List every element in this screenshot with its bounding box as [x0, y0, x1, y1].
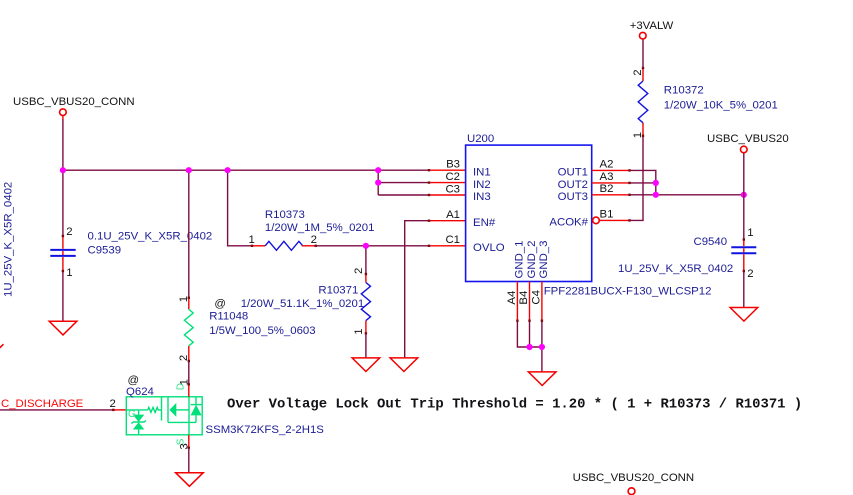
- wire elbow to R10373: [228, 170, 252, 246]
- junction IN2 row: [375, 180, 381, 186]
- svg-text:USBC_VBUS20: USBC_VBUS20: [707, 133, 789, 145]
- junction OUT2 tie: [653, 180, 659, 186]
- pin stub Q624 pin 3 (source): [188, 435, 190, 448]
- pin stub C2/IN2: [429, 182, 466, 184]
- ground (U200 GND): [528, 372, 556, 386]
- resistor R10373: [252, 245, 265, 247]
- connector pin USBC_VBUS20_CONN (bottom): [628, 488, 635, 495]
- svg-text:Q624: Q624: [126, 386, 154, 398]
- resistor R11048: [188, 298, 190, 310]
- svg-text:1U_25V_K_X5R_0402: 1U_25V_K_X5R_0402: [618, 263, 733, 275]
- pin stub A3/OUT2: [592, 182, 630, 184]
- wire R11048 to Q624: [188, 361, 190, 384]
- pin stub C1/OVLO: [429, 245, 466, 247]
- ground (Q624 source): [176, 473, 204, 487]
- svg-text:C2: C2: [445, 171, 460, 183]
- wire C_DISCHARGE: [0, 409, 113, 411]
- svg-text:0.1U_25V_K_X5R_0402: 0.1U_25V_K_X5R_0402: [88, 231, 213, 243]
- connector pin USBC_VBUS20_CONN: [60, 109, 67, 116]
- svg-text:1/20W_1M_5%_0201: 1/20W_1M_5%_0201: [265, 222, 375, 234]
- svg-text:U200: U200: [467, 133, 494, 145]
- svg-text:OVLO: OVLO: [473, 242, 505, 254]
- svg-text:+3VALW: +3VALW: [630, 20, 674, 32]
- svg-text:OUT3: OUT3: [558, 191, 588, 203]
- svg-text:C9539: C9539: [88, 245, 122, 257]
- svg-text:GND_3: GND_3: [538, 241, 550, 279]
- junction OUT3 / USBC_VBUS20 / C9540: [741, 192, 747, 198]
- junction GND tie C4: [539, 344, 545, 350]
- wire C1 row: [316, 245, 429, 247]
- capacitor C9540: [743, 240, 745, 247]
- svg-text:B4: B4: [518, 291, 530, 305]
- svg-text:A2: A2: [600, 159, 614, 171]
- wire OUT3 row to USBC_VBUS20: [630, 194, 744, 196]
- svg-text:C_DISCHARGE: C_DISCHARGE: [1, 398, 84, 410]
- junction C1 row / R10371: [363, 243, 369, 249]
- ground (C9539): [49, 321, 77, 335]
- svg-text:C9540: C9540: [694, 236, 728, 248]
- wire source to ground: [188, 448, 190, 473]
- ground (EN#): [390, 358, 418, 372]
- svg-text:1/5W_100_5%_0603: 1/5W_100_5%_0603: [209, 325, 315, 337]
- svg-text:IN2: IN2: [473, 179, 491, 191]
- junction bus/R11048: [186, 167, 192, 173]
- svg-text:R11048: R11048: [209, 311, 248, 323]
- svg-text:GND_2: GND_2: [526, 241, 538, 279]
- svg-text:C4: C4: [530, 290, 542, 305]
- off-sheet connector tick (left edge): [0, 344, 4, 348]
- wire C9539 branch: [62, 170, 64, 236]
- wire USBC_VBUS20 drop: [743, 153, 745, 195]
- svg-text:SSM3K72KFS_2-2H1S: SSM3K72KFS_2-2H1S: [206, 424, 325, 436]
- svg-text:2: 2: [632, 69, 644, 75]
- wire branch to C2/C3: [377, 170, 379, 195]
- svg-text:B2: B2: [600, 183, 614, 195]
- svg-text:1/20W_51.1K_1%_0201: 1/20W_51.1K_1%_0201: [241, 298, 365, 310]
- pin stub C3/IN3: [429, 194, 466, 196]
- junction OUT3 tie: [653, 192, 659, 198]
- svg-text:2: 2: [353, 268, 365, 274]
- junction bus/IN2-IN3 branch: [375, 167, 381, 173]
- svg-text:1: 1: [747, 227, 753, 239]
- pin stub B4/GND_2: [529, 282, 531, 321]
- svg-text:2: 2: [311, 234, 317, 246]
- svg-text:@: @: [128, 375, 140, 387]
- svg-text:1: 1: [66, 267, 72, 279]
- svg-text:A3: A3: [600, 171, 614, 183]
- pin stub B3/IN1: [429, 169, 466, 171]
- svg-text:GND_1: GND_1: [513, 241, 525, 279]
- svg-text:USBC_VBUS20_CONN: USBC_VBUS20_CONN: [573, 472, 695, 484]
- svg-text:R10371: R10371: [318, 285, 358, 297]
- pin-end junction marks: [251, 245, 253, 247]
- wire C2 row: [378, 182, 429, 184]
- resistor R10372: [642, 123, 644, 136]
- pin stub A1/EN#: [429, 220, 466, 222]
- junction bus/C9539: [60, 167, 66, 173]
- svg-text:Over Voltage Lock Out Trip Thr: Over Voltage Lock Out Trip Threshold = 1…: [227, 396, 802, 412]
- wire ACOK# to R10372: [630, 136, 644, 221]
- wire R11048 branch: [188, 170, 190, 298]
- junction bus/R10373 branch: [225, 167, 231, 173]
- pin stub B1/ACOK#: [599, 219, 629, 221]
- svg-text:ACOK#: ACOK#: [549, 217, 588, 229]
- svg-text:1: 1: [249, 234, 255, 246]
- transistor Q624 SSM3K72KFS (N-ch MOSFET with ESD diode): [126, 397, 202, 435]
- wire OUT2 row: [630, 182, 656, 184]
- pin stub C4/GND_3: [541, 282, 543, 321]
- svg-text:1/20W_10K_5%_0201: 1/20W_10K_5%_0201: [664, 99, 778, 111]
- wire GND tie: [517, 321, 542, 347]
- resistor R10371: [365, 246, 367, 274]
- pin stub A2/OUT1: [592, 169, 630, 171]
- wire to C9540: [743, 195, 745, 240]
- wire main bus y=170: [63, 169, 429, 171]
- svg-text:A1: A1: [446, 209, 460, 221]
- svg-text:G: G: [128, 409, 136, 420]
- IC U200 (FPF2281 load switch): [466, 145, 592, 281]
- pin stub Q624 pin 1 (drain): [188, 384, 190, 396]
- svg-text:IN1: IN1: [473, 166, 491, 178]
- pin B1/ACOK# bubble: [593, 217, 600, 224]
- svg-text:B1: B1: [600, 209, 614, 221]
- svg-text:2: 2: [110, 398, 116, 410]
- svg-text:A4: A4: [506, 291, 518, 305]
- svg-text:@: @: [214, 298, 226, 310]
- svg-text:USBC_VBUS20_CONN: USBC_VBUS20_CONN: [13, 96, 135, 108]
- svg-text:C1: C1: [445, 234, 460, 246]
- junction GND tie B4: [526, 344, 532, 350]
- svg-text:EN#: EN#: [473, 217, 496, 229]
- svg-text:R10372: R10372: [664, 85, 704, 97]
- wire EN# to ground: [405, 221, 429, 358]
- svg-text:2: 2: [66, 226, 72, 238]
- svg-text:OUT2: OUT2: [558, 179, 588, 191]
- ground (C9540): [730, 308, 758, 322]
- svg-text:B3: B3: [446, 159, 460, 171]
- capacitor C9539: [62, 236, 64, 249]
- wire from connector to bus: [62, 116, 64, 120]
- pin stub B2/OUT3: [592, 194, 630, 196]
- svg-text:FPF2281BUCX-F130_WLCSP12: FPF2281BUCX-F130_WLCSP12: [544, 285, 712, 297]
- svg-text:OUT1: OUT1: [558, 167, 588, 179]
- wire C3 row: [378, 194, 429, 196]
- ground (R10371): [352, 358, 380, 372]
- svg-text:R10373: R10373: [265, 209, 305, 221]
- pin stub A4/GND_1: [516, 282, 518, 321]
- connector pin USBC_VBUS20: [741, 146, 748, 153]
- svg-text:IN3: IN3: [473, 191, 491, 203]
- svg-text:1: 1: [353, 328, 365, 334]
- svg-text:C3: C3: [445, 183, 460, 195]
- svg-text:2: 2: [747, 268, 753, 280]
- power pin +3VALW: [640, 32, 647, 39]
- pin stub Q624 pin 2 (gate): [113, 409, 126, 411]
- wire OUT1 to OUT3 tie: [630, 170, 656, 194]
- svg-text:1U_25V_K_X5R_0402: 1U_25V_K_X5R_0402: [3, 182, 15, 297]
